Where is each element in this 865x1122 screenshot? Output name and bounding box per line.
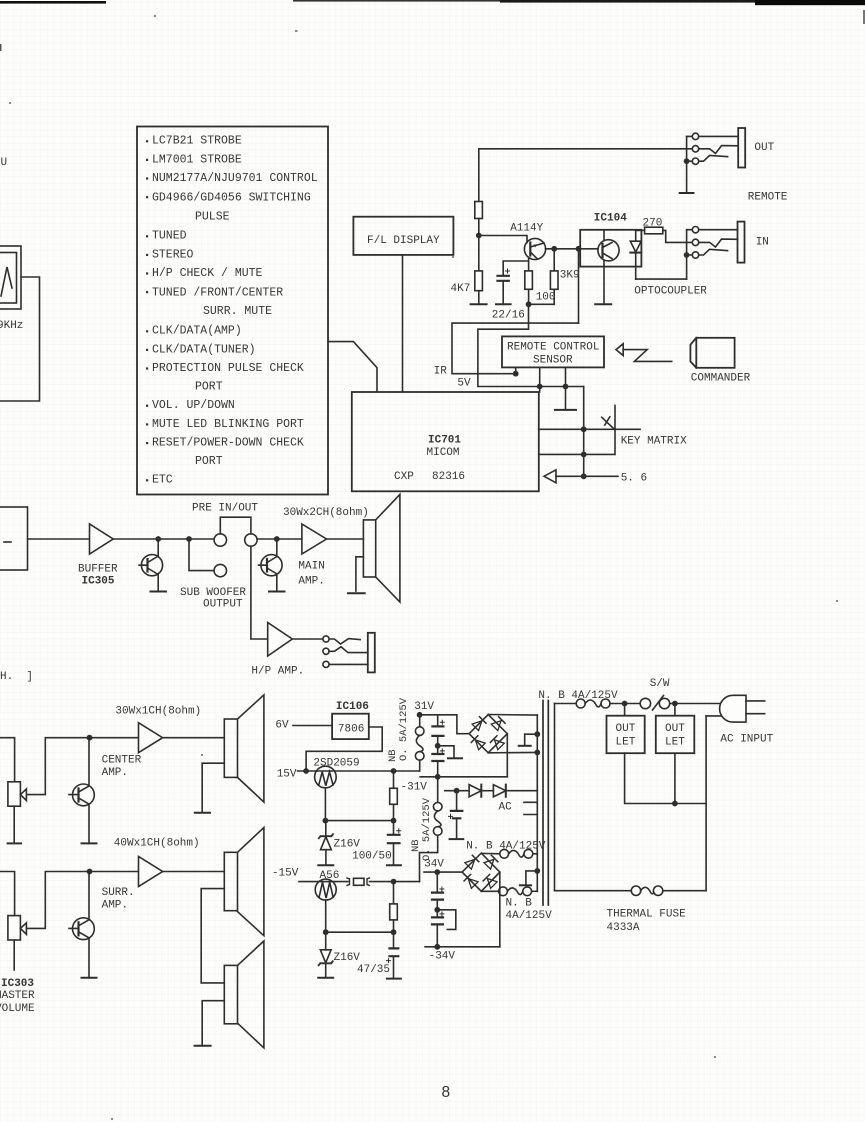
bridge2 right vertex drop [499,872,501,947]
opto transistor [598,240,619,261]
svg-text:LET: LET [616,737,636,749]
svg-text:47/35: 47/35 [357,964,390,976]
ground buffer mute [151,591,167,593]
capacitor column 34V lower [440,912,444,916]
svg-text:PORT: PORT [195,381,223,394]
pre in jack [245,534,257,546]
svg-text:30Wx2CH(8ohm): 30Wx2CH(8ohm) [283,507,369,519]
wire input box to buffer [28,538,90,540]
svg-text:CLK/DATA(AMP): CLK/DATA(AMP) [152,325,242,338]
speaker surround upper [224,852,237,910]
svg-text:100/50: 100/50 [352,851,392,863]
svg-text:U: U [1,157,8,169]
AC winding tap bracket [524,802,537,814]
svg-text:30Wx1CH(8ohm): 30Wx1CH(8ohm) [115,706,201,718]
svg-text:IC106: IC106 [336,701,369,713]
pre out jack [214,534,226,546]
svg-text:MAIN: MAIN [298,561,324,573]
capacitor on -31V line [456,791,458,810]
outlet return wires [625,753,707,803]
IN jack plate [738,222,745,263]
list bullets [146,140,148,481]
wire main amp to speaker [327,538,364,540]
key matrix wire upper [539,428,640,430]
remote IN jack bus [686,230,688,279]
svg-text:H. ]: H. ] [0,671,33,683]
svg-text:SENSOR: SENSOR [533,355,573,367]
svg-text:OPTOCOUPLER: OPTOCOUPLER [634,286,707,298]
op-amp H/P AMP [268,623,293,657]
node base A114Y [476,233,482,239]
op-amp SURR AMP [139,857,163,887]
15V rail [298,770,420,772]
resistor 15V dropper [393,771,395,788]
svg-text:SURR.: SURR. [102,887,135,899]
ground surround mute [82,977,97,979]
svg-text:PORT: PORT [195,455,223,468]
resistor 4K7 [478,236,480,271]
thermal fuse line [555,890,632,892]
svg-text:IC303: IC303 [1,978,34,990]
fuse F2 0.5A vertical [437,777,439,803]
transformer primary winding [554,704,556,891]
wire 7806 output loop [306,727,382,771]
svg-text:IR: IR [434,366,448,378]
svg-text:7806: 7806 [338,724,364,736]
scan edge bar top-middle [293,0,501,2]
svg-text:REMOTE CONTROL: REMOTE CONTROL [507,342,599,354]
sensor pin 3 [565,367,567,410]
sub woofer branch [189,539,214,571]
svg-text:SUB WOOFER: SUB WOOFER [180,587,246,599]
svg-text:TUNED: TUNED [152,230,187,243]
potentiometer center level [8,782,21,806]
ground cap 22/16 [496,303,511,305]
svg-text:31V: 31V [414,701,434,713]
svg-text:-34V: -34V [429,951,456,963]
partial waveform box inner [0,253,17,304]
svg-text:STEREO: STEREO [152,249,194,262]
svg-text:NUM2177A/NJU9701 CONTROL: NUM2177A/NJU9701 CONTROL [152,172,318,185]
svg-text:MASTER: MASTER [0,990,35,1002]
svg-text:RESET/POWER-DOWN CHECK: RESET/POWER-DOWN CHECK [152,437,304,450]
svg-text:34V: 34V [424,859,444,871]
svg-text:AMP.: AMP. [102,900,128,912]
ground speaker lower [202,1001,224,1045]
ground hook transformer lower [526,871,537,884]
dash mark inside input box [4,541,11,543]
svg-text:5. 6: 5. 6 [621,472,647,484]
svg-text:NB: NB [387,749,399,762]
ground main mute [269,591,285,593]
sensor pin 2 [539,367,541,392]
svg-text:5V: 5V [457,378,471,390]
potentiometer IC303 master volume [8,916,21,940]
outlet box 1 [624,704,626,716]
fuse F5 primary [576,699,585,708]
wire lower node [326,931,394,933]
34V rail [424,871,462,873]
ground OUT jack [680,192,694,194]
op-amp BUFFER IC305 [90,524,114,554]
svg-text:MUTE LED BLINKING PORT: MUTE LED BLINKING PORT [152,418,304,431]
key matrix bar [614,405,616,454]
diode D3 [469,785,481,797]
fuse F1 0.5A vertical [419,715,421,727]
5V/key vertical bus [583,387,585,477]
svg-text:VOL. UP/DOWN: VOL. UP/DOWN [152,399,235,412]
ground hook transformer upper [525,734,538,745]
speaker surround lower [224,965,237,1023]
svg-text:GD4966/GD4056 SWITCHING: GD4966/GD4056 SWITCHING [152,192,311,205]
svg-text:O. 5A/125V: O. 5A/125V [398,697,410,761]
ground pot center [8,842,21,844]
svg-text:OUTPUT: OUTPUT [203,599,243,611]
svg-text:CLK/DATA(TUNER): CLK/DATA(TUNER) [152,343,256,356]
svg-text:F/L DISPLAY: F/L DISPLAY [367,235,440,247]
svg-text:8: 8 [442,1084,451,1101]
svg-text:Z16V: Z16V [334,839,361,851]
capacitor column 34V [436,872,438,892]
opto emitter to ground [603,261,605,305]
node 31V [417,712,423,718]
transistor Q main mute [276,539,278,556]
svg-text:6V: 6V [275,719,289,731]
transistor Q buffer mute [157,539,159,556]
resistor R (top, unlabeled) [478,149,480,202]
sub woofer jack [214,564,226,576]
svg-text:PRE IN/OUT: PRE IN/OUT [192,502,258,514]
svg-text:AMP.: AMP. [298,576,324,588]
partial block outline lower-left [0,277,40,401]
key matrix arrow [602,417,615,429]
list text lines [152,135,318,487]
bridge1 top to transformer [488,714,537,717]
ground 4K7 [471,303,487,305]
svg-text:S/W: S/W [650,678,670,690]
svg-text:SURR. MUTE: SURR. MUTE [203,305,272,318]
svg-text:OUT: OUT [665,723,685,735]
svg-text:82316: 82316 [432,471,465,483]
bridge1 right vertex drop [506,734,508,777]
bridge rectifier D2 [462,853,500,891]
svg-text:TUNED /FRONT/CENTER: TUNED /FRONT/CENTER [152,287,283,300]
svg-text:BUFFER: BUFFER [78,564,118,576]
wire pre-in to main amp [257,538,302,540]
5V wire [478,304,584,386]
svg-text:100: 100 [536,292,556,304]
capacitor 100/50 [393,821,395,834]
hp jack contacts [323,636,329,642]
capacitor 22/16 [503,261,528,275]
svg-text:LM7001 STROBE: LM7001 STROBE [152,154,242,167]
svg-text:LET: LET [665,737,685,749]
-15V rail [299,881,348,883]
diode D4 [493,785,505,797]
commander IR beam arrow [616,344,623,356]
svg-text:KEY MATRIX: KEY MATRIX [621,435,687,447]
outlet box 2 [674,704,676,716]
op-amp MAIN AMP [302,524,327,554]
svg-text:-15V: -15V [272,867,299,879]
smoothing cap column upper [437,715,439,726]
F/L DISPLAY box [353,217,453,255]
AC plug [720,695,746,722]
commander body [696,338,734,368]
micom port list box [137,127,328,495]
-31V diode line [445,790,469,792]
svg-text:4333A: 4333A [607,922,640,934]
speaker main [363,520,375,577]
svg-text:ETC: ETC [152,474,173,487]
svg-text:CENTER: CENTER [102,755,142,767]
emitter wire + resistor 100 [528,258,530,271]
remote control sensor box [502,336,604,367]
fusible resistor on -15V rail [347,878,350,885]
smoothing cap column lower [440,749,444,753]
svg-text:22/16: 22/16 [492,310,525,322]
partial input box (buffer source) [0,507,28,570]
5.6 arrowhead [544,470,556,483]
wire emitter node [325,820,393,822]
svg-text:OUT: OUT [616,723,636,735]
collector wire A114Y to IC104 [546,248,598,250]
ground speaker center [202,763,224,811]
key matrix wire lower [539,453,615,455]
ground cap -31V [450,838,464,840]
zener Z16V lower [325,932,327,950]
svg-text:4K7: 4K7 [451,283,471,295]
svg-text:COMMANDER: COMMANDER [691,373,751,385]
scan edge bar top-left [0,1,106,4]
wire hp out [292,638,323,640]
svg-text:IC305: IC305 [82,576,115,588]
svg-text:40Wx1CH(8ohm): 40Wx1CH(8ohm) [114,838,200,850]
hp jack plate [368,633,375,673]
svg-text:MICOM: MICOM [427,447,460,459]
speaker center [224,719,237,777]
svg-text:VOLUME: VOLUME [0,1003,35,1015]
scan edge bar top-right [500,0,762,3]
loop diode to remote-in sleeve [636,278,687,280]
top rail to remote out [479,148,692,150]
sensor pin 1 [515,367,517,373]
link wire to lower speaker [201,889,224,983]
opto LED diode [635,230,637,241]
IR wire [452,323,579,374]
pre in/out bracket [220,517,251,534]
resistor 3K9 [553,249,555,271]
ground cap 100/50 [387,864,401,866]
wire feed surround amp [0,872,15,916]
wire base [479,236,527,243]
IC701 MICOM box [352,392,539,491]
svg-text:AC INPUT: AC INPUT [720,734,773,746]
wire F/L display to IC701 [402,255,404,391]
bridge rectifier D1 [469,715,507,753]
svg-text:H/P AMP.: H/P AMP. [251,666,304,678]
svg-text:Z16V: Z16V [334,952,361,964]
svg-text:PULSE: PULSE [195,211,230,224]
svg-text:H/P CHECK / MUTE: H/P CHECK / MUTE [152,267,263,280]
transformer core [543,701,548,906]
ground hook cap upper [438,746,454,758]
svg-text:PROTECTION PULSE CHECK: PROTECTION PULSE CHECK [152,362,304,375]
svg-text:15V: 15V [277,769,297,781]
junction dots key matrix [581,426,587,432]
svg-text:N. B: N. B [506,898,533,910]
list connector to IC701 [328,342,377,392]
wire 6V input [293,725,332,727]
svg-text:LC7B21 STROBE: LC7B21 STROBE [152,135,242,148]
scan edge bar top-far-right [755,0,865,5]
op-amp CENTER AMP [139,723,163,753]
ground center mute [82,842,97,844]
svg-text:9KHz: 9KHz [0,320,23,332]
-34V line [425,946,500,948]
ground sensor pin3 [555,409,576,411]
ground zener lower [318,977,333,979]
wire center amp to speaker [163,737,225,739]
hp branch wire [251,546,268,639]
svg-text:AC: AC [499,801,513,813]
ground speaker main [356,557,364,591]
svg-text:AMP.: AMP. [102,767,128,779]
svg-text:IC104: IC104 [594,212,627,224]
wire switch to plug [670,703,722,705]
svg-text:IN: IN [756,236,769,248]
ground cap 47/35 [387,978,401,980]
-31V return line [420,776,507,778]
bridge1 bottom to transformer [488,751,537,753]
ground zener upper [318,864,333,866]
svg-text:IC701: IC701 [428,435,461,447]
resistor -15V dropper [393,882,395,904]
OUT jack contacts [692,133,698,139]
remote OUT jack bus [686,136,688,193]
svg-text:NB: NB [410,839,422,852]
wire surr amp to speaker [163,871,225,873]
fuse F4 4A horizontal [481,890,498,892]
svg-text:-31V: -31V [401,782,428,794]
svg-text:REMOTE: REMOTE [748,192,788,204]
transformer secondary bus [536,715,538,891]
OUT jack plate [738,128,745,168]
partial waveform box outer [0,246,21,309]
transistor Q surround mute [88,872,90,919]
transistor Q center mute [88,738,90,785]
primary top wire [555,703,577,705]
svg-text:3K9: 3K9 [560,270,580,282]
capacitor 47/35 [393,932,395,947]
svg-text:A114Y: A114Y [510,223,543,235]
IN jack contacts [692,227,698,233]
wire feed center amp [0,738,15,782]
IR drop wire [578,249,580,323]
31V rail to bridge [420,715,470,734]
svg-text:CXP: CXP [394,471,414,483]
fuse F3 4A horizontal [481,852,500,854]
5.6 wire [556,475,618,477]
svg-text:O. 5A/125V: O. 5A/125V [421,797,433,861]
ground hook 34V caps [437,910,456,930]
zener Z16V upper [325,821,327,837]
svg-text:4A/125V: 4A/125V [506,910,553,922]
waveform trace [1,267,12,296]
svg-text:OUT: OUT [754,142,774,154]
svg-text:THERMAL FUSE: THERMAL FUSE [607,909,687,921]
AC neutral bus [705,716,707,891]
wire buffer output [113,538,214,540]
